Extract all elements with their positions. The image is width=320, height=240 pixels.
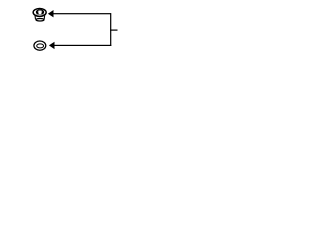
wire top horizontal	[53, 13, 111, 14]
grommet barrel right side	[43, 16, 46, 20]
grommet barrel bottom rim	[36, 18, 44, 21]
grommet hole wall left	[36, 11, 38, 14]
grommet hole opening	[38, 10, 41, 14]
grommet rolled rim	[36, 10, 43, 14]
wire bottom horizontal	[54, 45, 111, 46]
arrowhead to washer	[49, 42, 55, 49]
washer inner hole	[37, 44, 44, 48]
wire middle stub	[110, 30, 117, 31]
grommet (top icon) flange	[33, 8, 46, 16]
background	[0, 0, 150, 64]
arrowhead to grommet	[48, 10, 54, 17]
washer (bottom icon) outer ring	[34, 41, 46, 50]
grommet hole wall right	[42, 11, 44, 14]
grommet barrel left side	[34, 16, 37, 20]
wire right vertical	[110, 13, 111, 46]
